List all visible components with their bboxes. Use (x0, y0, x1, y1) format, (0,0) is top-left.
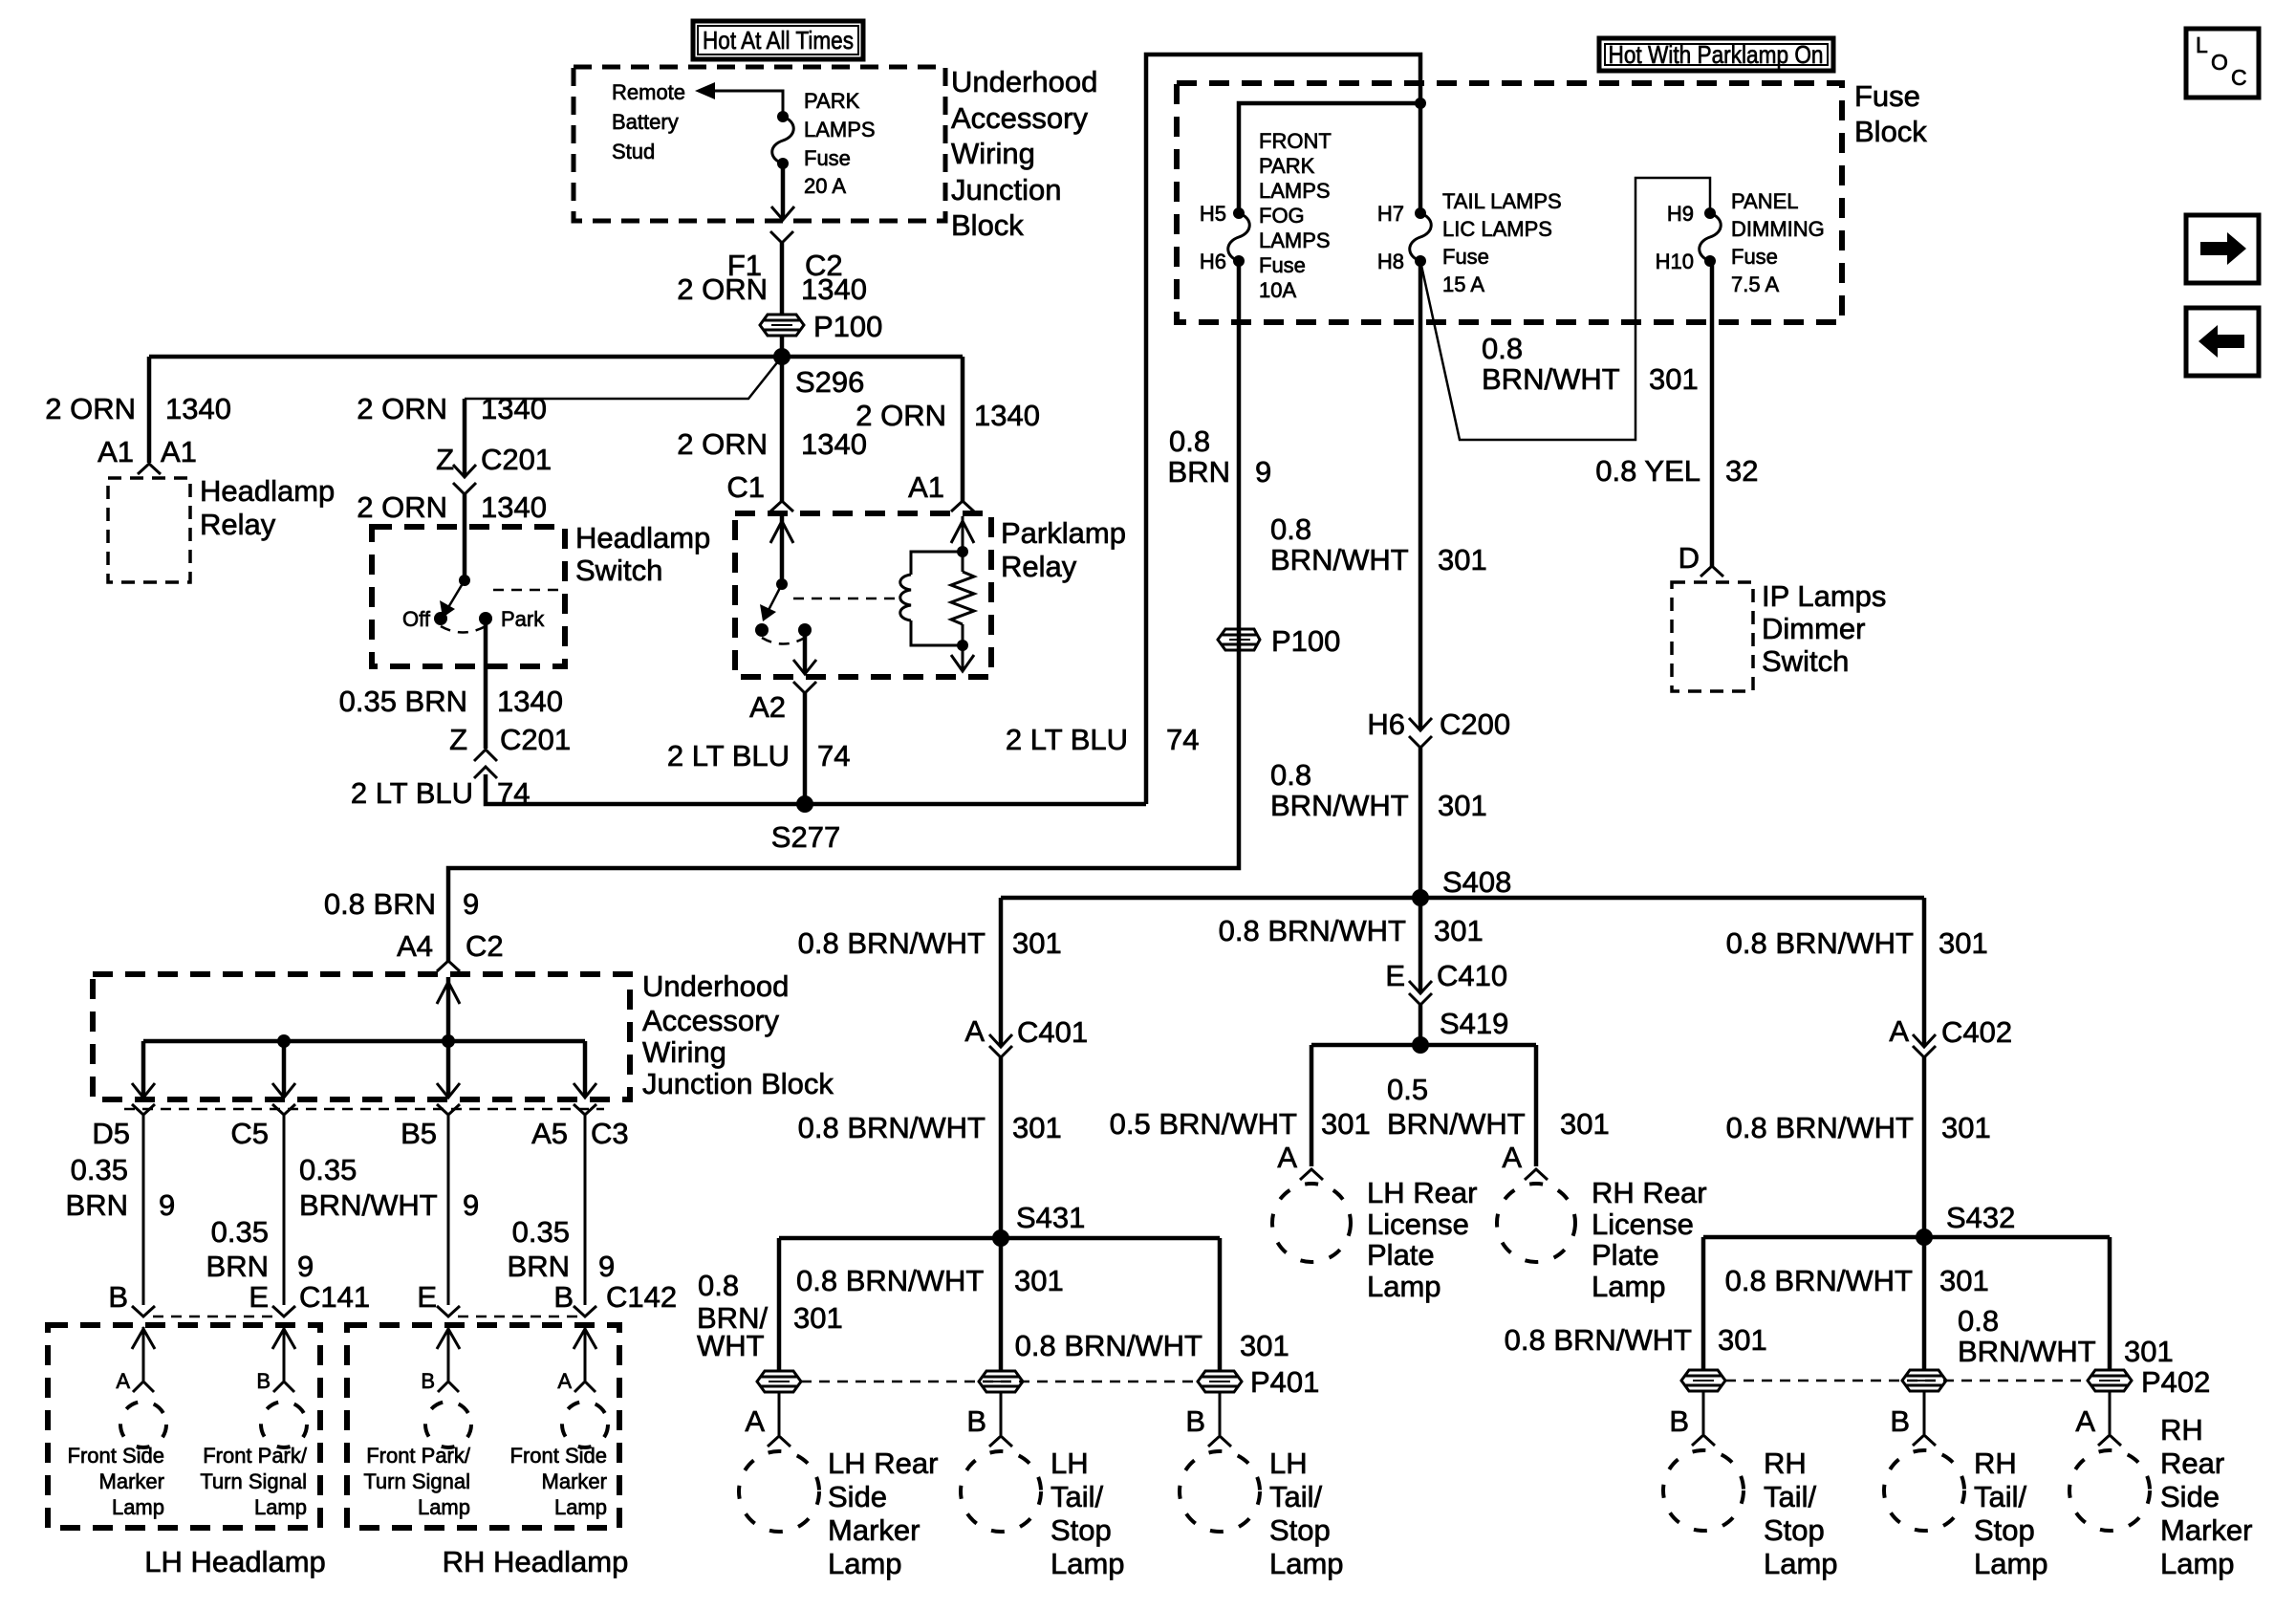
switch linkage dashed line (493, 589, 563, 592)
svg-text:A: A (2075, 1404, 2095, 1438)
grommet P402 (2088, 1370, 2132, 1391)
connector chevron at dimmer switch D (1700, 566, 1723, 577)
svg-text:0.8 BRN/WHT: 0.8 BRN/WHT (1505, 1323, 1692, 1357)
svg-text:Rear: Rear (2160, 1447, 2224, 1480)
svg-text:1340: 1340 (481, 392, 547, 425)
connector C201 (arrow + chevron, pointing down) (453, 465, 476, 494)
label: 0.8 BRN/WHT 301 (above S432) (1726, 1111, 1991, 1144)
svg-text:P402: P402 (2141, 1365, 2210, 1399)
svg-text:0.8: 0.8 (1482, 332, 1523, 365)
label: 0.5 BRN/WHT 301 (right license lamp) (1387, 1073, 1610, 1141)
wire: H8 jog over to H9 (panel dimming feed) (1420, 178, 1710, 440)
connector chevron RH license (1525, 1169, 1548, 1180)
wire: S432 left branch down (1701, 1237, 1706, 1370)
svg-text:20 A: 20 A (804, 174, 846, 198)
svg-text:0.8: 0.8 (698, 1269, 739, 1302)
svg-text:E: E (417, 1280, 437, 1314)
grommet P100 (760, 315, 804, 336)
headlamp switch pole and contacts (434, 575, 492, 633)
wire: S419 right branch down (1534, 1045, 1539, 1166)
label: RH Rear Side Marker Lamp (2160, 1413, 2252, 1580)
connector chevron at junction block A4/C2 (437, 961, 460, 971)
lamp: front side marker (LH) (120, 1402, 166, 1447)
svg-text:A1: A1 (97, 435, 134, 468)
connector C410 (arrow + chevron) (1409, 981, 1432, 1005)
svg-text:9: 9 (463, 887, 479, 921)
svg-text:Lamp: Lamp (112, 1495, 164, 1519)
svg-text:0.8 BRN/WHT: 0.8 BRN/WHT (1219, 914, 1406, 947)
svg-text:A: A (1277, 1141, 1297, 1174)
svg-text:0.8: 0.8 (1958, 1304, 1999, 1338)
svg-text:301: 301 (1941, 1111, 1991, 1144)
lamp: RH tail/stop (left) (1663, 1450, 1744, 1531)
svg-text:C142: C142 (606, 1280, 677, 1314)
svg-text:Hot With Parklamp On: Hot With Parklamp On (1609, 40, 1824, 69)
label: 0.8 YEL 32 (1595, 454, 1758, 488)
icon: right arrow box (2186, 215, 2259, 283)
svg-text:Lamp: Lamp (418, 1495, 470, 1519)
label: 2 ORN 1340 (C1 branch) (677, 427, 867, 461)
svg-text:1340: 1340 (801, 427, 867, 461)
svg-text:E: E (249, 1280, 269, 1314)
LH headlamp box (dashed) (48, 1325, 320, 1528)
svg-text:301: 301 (1438, 789, 1487, 822)
parklamp relay coil exit arrow (951, 655, 974, 671)
wire: H8 fuse output down to C200 (1419, 261, 1423, 729)
svg-text:0.8 BRN/WHT: 0.8 BRN/WHT (1725, 1264, 1913, 1297)
wire: S296 horizontal bus left and right (149, 355, 963, 359)
svg-text:Block: Block (1854, 115, 1927, 148)
svg-text:15 A: 15 A (1442, 272, 1484, 296)
svg-text:Dimmer: Dimmer (1762, 612, 1866, 645)
label: 2 ORN 1340 (above C201) (357, 392, 547, 425)
svg-text:Lamp: Lamp (1367, 1270, 1441, 1303)
connector face dashed line C142 (458, 1316, 578, 1318)
svg-text:1340: 1340 (497, 685, 563, 718)
svg-text:301: 301 (793, 1301, 843, 1335)
headlamp switch box (dashed) (372, 527, 565, 666)
wire: P402 to RH rear side marker (2109, 1391, 2112, 1434)
grommet (LH tail/stop center) (979, 1371, 1023, 1392)
connector chevron C142 E (437, 1306, 460, 1316)
svg-text:A4: A4 (397, 929, 433, 963)
svg-text:B: B (256, 1369, 271, 1393)
svg-text:A: A (964, 1014, 985, 1048)
svg-text:Side: Side (828, 1480, 887, 1513)
svg-text:301: 301 (1240, 1329, 1289, 1362)
splice S277 (796, 795, 813, 813)
svg-text:LH Rear: LH Rear (828, 1447, 938, 1480)
svg-text:301: 301 (1438, 543, 1487, 577)
wire: RH front park drop with entry arrow (437, 1327, 460, 1381)
label: 0.35 BRN 9 (C5) (206, 1215, 314, 1283)
svg-text:B: B (108, 1280, 128, 1314)
label: E C410 (1385, 959, 1507, 992)
label: A4 C2 (397, 929, 504, 963)
wire: bus drop D5 with exit arrow (132, 1041, 155, 1098)
svg-text:B: B (966, 1404, 986, 1438)
wire: right branch of S296 down to parklamp relay A1 (961, 357, 965, 501)
svg-text:DIMMING: DIMMING (1731, 217, 1825, 241)
wire: remote battery stud feed with left arrow (695, 82, 783, 117)
svg-text:0.8 BRN/WHT: 0.8 BRN/WHT (796, 1264, 984, 1297)
svg-text:0.8: 0.8 (1270, 512, 1311, 546)
svg-text:Front Park/: Front Park/ (366, 1444, 471, 1468)
label: LH Tail/ Stop Lamp (center) (1051, 1447, 1125, 1580)
connector chevron LH rear side marker (768, 1436, 791, 1447)
svg-text:LH: LH (1269, 1447, 1308, 1480)
svg-text:A1: A1 (908, 470, 944, 504)
svg-text:Tail/: Tail/ (1974, 1480, 2027, 1513)
svg-text:Headlamp: Headlamp (200, 474, 335, 508)
svg-text:Block: Block (951, 208, 1024, 242)
svg-text:Wiring: Wiring (951, 137, 1035, 170)
splice S408 (1412, 889, 1429, 906)
headlamp relay box (dashed) (108, 478, 190, 582)
svg-text:H10: H10 (1656, 250, 1694, 273)
connector chevron C5 (272, 1104, 295, 1115)
label: Underhood Accessory Wiring Junction Block (lower) (642, 969, 834, 1100)
svg-text:A: A (557, 1369, 572, 1393)
wire: H10 down to IP lamps dimmer switch (1710, 261, 1715, 566)
svg-text:LH Rear: LH Rear (1367, 1176, 1477, 1209)
label: 2 LT BLU 74 (A2 wire) (667, 739, 851, 772)
svg-text:Tail/: Tail/ (1764, 1480, 1817, 1513)
wire: left branch down to C401 (999, 898, 1004, 1046)
grommet (LH rear side marker) (757, 1371, 801, 1392)
svg-text:RH: RH (1974, 1447, 2017, 1480)
svg-text:2 ORN: 2 ORN (357, 490, 447, 524)
svg-text:BRN/WHT: BRN/WHT (1270, 789, 1409, 822)
svg-text:32: 32 (1725, 454, 1758, 488)
parklamp relay switch pole (755, 578, 812, 644)
wire: grommet to LH rear side marker lamp (778, 1392, 781, 1435)
grommet (RH tail/stop center) (1902, 1370, 1946, 1391)
wire: C402 to S432 (1922, 1057, 1927, 1237)
label: 0.8 BRN 9 (upper) (1168, 424, 1272, 489)
svg-text:Stop: Stop (1974, 1513, 2035, 1547)
svg-text:301: 301 (1434, 914, 1484, 947)
svg-text:Underhood: Underhood (642, 969, 789, 1003)
connector chevron at headlamp relay A1 (138, 464, 161, 474)
svg-text:H6: H6 (1200, 250, 1226, 273)
label: RH Tail/ Stop Lamp (center) (1974, 1447, 2048, 1580)
label: Parklamp Relay (1001, 516, 1126, 583)
svg-text:Lamp: Lamp (1592, 1270, 1666, 1303)
svg-text:S408: S408 (1442, 865, 1511, 899)
svg-text:301: 301 (1649, 362, 1699, 396)
wire: S296 diagonal to headlamp switch branch (465, 357, 782, 399)
svg-text:LH: LH (1051, 1447, 1089, 1480)
svg-text:1340: 1340 (974, 399, 1040, 432)
grommet (RH tail/stop left) (1681, 1370, 1725, 1391)
label: Front Park/Turn Signal Lamp (RH) (363, 1444, 471, 1519)
wire: RH front side marker drop with entry arrow (574, 1327, 596, 1381)
label: A C401 (964, 1014, 1088, 1049)
svg-text:C200: C200 (1440, 707, 1510, 741)
svg-text:S419: S419 (1440, 1007, 1508, 1040)
svg-text:P100: P100 (1271, 624, 1340, 658)
label: Z C201 (lower) (449, 723, 571, 756)
svg-text:Lamp: Lamp (254, 1495, 307, 1519)
svg-text:301: 301 (1012, 1111, 1062, 1144)
svg-text:Lamp: Lamp (1051, 1547, 1125, 1580)
lamp: LH tail/stop (right) (1180, 1451, 1260, 1532)
svg-text:Marker: Marker (828, 1513, 920, 1547)
lamp: front park/turn signal (LH) (261, 1402, 307, 1447)
svg-text:7.5 A: 7.5 A (1731, 272, 1779, 296)
wire: Park contact down and out of switch box (484, 619, 488, 749)
label: 0.8 BRN/WHT 301 (panel dimming feed) (1482, 332, 1699, 396)
svg-text:D5: D5 (92, 1117, 130, 1150)
connector chevron at parklamp relay C1 (770, 501, 793, 511)
connector chevron C142 B (574, 1306, 596, 1316)
svg-text:Fuse: Fuse (804, 146, 851, 170)
svg-text:Parklamp: Parklamp (1001, 516, 1126, 550)
svg-text:RH Rear: RH Rear (1592, 1176, 1707, 1209)
RH headlamp box (dashed) (347, 1325, 619, 1528)
svg-text:C201: C201 (500, 723, 571, 756)
svg-text:BRN/WHT: BRN/WHT (1387, 1107, 1526, 1141)
svg-text:Turn Signal: Turn Signal (363, 1469, 470, 1493)
label: Headlamp Switch (575, 521, 710, 587)
svg-text:Relay: Relay (200, 508, 276, 541)
label: 2 ORN 1340 (677, 272, 867, 306)
svg-text:Lamp: Lamp (2160, 1547, 2235, 1580)
fuse TAIL LAMPS LIC LAMPS 15A (H7-H8) (1410, 207, 1432, 267)
svg-text:0.8 BRN/WHT: 0.8 BRN/WHT (798, 1111, 986, 1144)
label: PANEL DIMMING Fuse 7.5 A (1731, 189, 1825, 296)
label: 0.8 BRN/WHT 301 (above S431) (798, 1111, 1062, 1144)
connector chevron B5 (437, 1104, 460, 1115)
svg-text:Fuse: Fuse (1731, 245, 1778, 269)
grommet P401 row dashed link (801, 1381, 1198, 1383)
svg-text:C201: C201 (481, 443, 552, 476)
svg-text:BRN/WHT: BRN/WHT (1270, 543, 1409, 577)
svg-text:Fuse: Fuse (1259, 253, 1306, 277)
svg-text:Fuse: Fuse (1442, 245, 1489, 269)
label: FRONT PARK LAMPS FOG LAMPS Fuse 10A (1259, 129, 1332, 302)
connector chevron LH tail/stop right (1208, 1436, 1231, 1447)
wire: S408 center down to C410 (1419, 898, 1423, 993)
grommet P100 (second) (1218, 629, 1260, 650)
svg-text:FOG: FOG (1259, 204, 1305, 228)
svg-text:Relay: Relay (1001, 550, 1077, 583)
svg-text:RH: RH (2160, 1413, 2203, 1447)
svg-text:LAMPS: LAMPS (1259, 228, 1331, 252)
svg-text:9: 9 (463, 1188, 479, 1222)
connector chevron RH tail/stop center (1913, 1435, 1936, 1446)
label: E C141 (249, 1280, 370, 1314)
wire: S419 left branch down (1310, 1045, 1314, 1166)
svg-text:0.5 BRN/WHT: 0.5 BRN/WHT (1110, 1107, 1297, 1141)
label: LH Rear License Plate Lamp (1367, 1176, 1477, 1303)
svg-text:1340: 1340 (165, 392, 231, 425)
svg-text:TAIL LAMPS: TAIL LAMPS (1442, 189, 1562, 213)
svg-text:PARK: PARK (1259, 154, 1315, 178)
svg-text:E: E (1385, 959, 1405, 992)
label: Underhood Accessory Wiring Junction Block (951, 65, 1097, 242)
label: 0.8 BRN/WHT 301 (above C401) (798, 926, 1062, 960)
wire: S432 right branch down (2108, 1237, 2112, 1370)
label: 2 LT BLU 74 (right riser) (1006, 723, 1200, 756)
parklamp relay A1 entry arrow (951, 521, 974, 543)
wire: grommet to RH tail/stop (center) (1923, 1391, 1926, 1434)
lamp: LH tail/stop (center) (961, 1451, 1041, 1532)
label: 0.8 BRN/WHT 301 (center S431) (796, 1264, 1064, 1297)
header box "Hot At All Times" (693, 21, 863, 59)
connector C402 (arrow + chevron) (1913, 1034, 1936, 1057)
IP lamps dimmer switch box (dashed) (1672, 582, 1753, 691)
fuse FRONT PARK LAMPS FOG LAMPS 10A (H5-H6) (1228, 207, 1250, 267)
Underhood Accessory Wiring Junction Block (lower) dashed box (93, 974, 630, 1099)
svg-text:2 ORN: 2 ORN (677, 272, 768, 306)
svg-text:S296: S296 (795, 365, 864, 399)
svg-text:B: B (421, 1369, 435, 1393)
lamp: RH rear side marker (2069, 1450, 2150, 1531)
svg-text:0.35: 0.35 (211, 1215, 269, 1249)
label: RH Rear License Plate Lamp (1592, 1176, 1707, 1303)
wire: D5 column down to C141 B (142, 1115, 145, 1305)
svg-text:0.35: 0.35 (512, 1215, 570, 1249)
label: 0.8 BRN/WHT 301 (left S432 branch) (1505, 1323, 1767, 1357)
svg-text:1340: 1340 (801, 272, 867, 306)
label: Front Side Marker Lamp (RH) (510, 1444, 608, 1519)
svg-text:LIC LAMPS: LIC LAMPS (1442, 217, 1552, 241)
connector chevron A5 (574, 1104, 596, 1115)
label: 0.8 BRN/WHT 301 (above C200) (1270, 512, 1487, 577)
connector chevron C141 B (132, 1306, 155, 1316)
svg-text:2 ORN: 2 ORN (45, 392, 136, 425)
svg-text:S431: S431 (1016, 1201, 1085, 1234)
wire: middle branch vertical to C201 (463, 399, 467, 475)
connector chevron lamp LH side marker (133, 1382, 154, 1392)
wire: P401 to LH tail/stop lamp (right) (1219, 1392, 1222, 1435)
svg-text:Hot At All Times: Hot At All Times (703, 26, 854, 54)
svg-text:C401: C401 (1017, 1015, 1088, 1049)
label: 0.8 BRN/WHT 301 (center below S432) (1725, 1264, 1989, 1297)
wire: left branch down to headlamp relay A1 (147, 357, 152, 463)
svg-text:A: A (1502, 1141, 1522, 1174)
svg-text:0.35 BRN: 0.35 BRN (339, 685, 467, 718)
svg-text:Switch: Switch (1762, 644, 1849, 678)
svg-text:Plate: Plate (1592, 1238, 1659, 1272)
wire: C410 to S419 (1419, 1005, 1423, 1045)
svg-text:PANEL: PANEL (1731, 189, 1799, 213)
label: 0.35 BRN 9 (D5) (66, 1153, 176, 1222)
svg-text:LAMPS: LAMPS (804, 118, 876, 141)
wire: down from C201 and right along S277 bus (486, 774, 1146, 804)
svg-text:Lamp: Lamp (1974, 1547, 2048, 1580)
svg-text:301: 301 (1321, 1107, 1371, 1141)
label: 0.8 BRN/WHT 301 (right S432 branch) (1958, 1304, 2174, 1368)
header box "Hot With Parklamp On" (1599, 38, 1833, 71)
svg-text:A: A (745, 1404, 765, 1438)
label: 2 ORN 1340 (left branch) (45, 392, 231, 425)
svg-text:H8: H8 (1377, 250, 1404, 273)
splice S432 (1916, 1229, 1933, 1246)
connector face dashed line (D5..A5) (124, 1108, 604, 1111)
label: 0.8 BRN/WHT 301 (right S431 branch) (1015, 1329, 1289, 1362)
connector chevron LH license (1300, 1169, 1323, 1180)
svg-text:RH Headlamp: RH Headlamp (443, 1545, 629, 1578)
svg-text:Off: Off (402, 607, 431, 631)
svg-text:LAMPS: LAMPS (1259, 179, 1331, 203)
connector face dashed line C141 (153, 1316, 277, 1318)
relay resistor (951, 516, 974, 669)
label: 0.35 BRN 9 (A5) (508, 1215, 616, 1283)
node: fuse feed junction (1415, 98, 1426, 109)
icon: LOC box (2186, 29, 2259, 98)
label: Front Park/Turn Signal Lamp (LH) (200, 1444, 308, 1519)
label: PARK LAMPS Fuse 20 A (804, 89, 876, 198)
lamp: LH rear side marker (739, 1451, 819, 1532)
svg-text:H5: H5 (1200, 202, 1226, 226)
grommet P402 row dashed link (1725, 1380, 2088, 1382)
svg-text:301: 301 (1718, 1323, 1767, 1357)
svg-text:B5: B5 (401, 1117, 437, 1150)
svg-text:S432: S432 (1946, 1201, 2015, 1234)
svg-text:301: 301 (1012, 926, 1062, 960)
svg-text:9: 9 (159, 1188, 175, 1222)
label: TAIL LAMPS LIC LAMPS Fuse 15 A (1442, 189, 1562, 296)
wire: C401 to S431 (999, 1057, 1004, 1238)
connector chevron LH tail/stop center (989, 1436, 1012, 1447)
svg-text:IP Lamps: IP Lamps (1762, 579, 1886, 613)
label: 0.8 BRN/WHT 301 (above C402) (1726, 926, 1988, 960)
grommet P401 (1198, 1371, 1242, 1392)
svg-text:2 LT BLU: 2 LT BLU (351, 776, 473, 810)
wire: S431 right branch down (1218, 1238, 1223, 1371)
svg-text:Front Park/: Front Park/ (203, 1444, 308, 1468)
svg-text:WHT: WHT (697, 1329, 765, 1362)
svg-text:H6: H6 (1367, 707, 1405, 741)
svg-text:301: 301 (1014, 1264, 1064, 1297)
svg-text:Lamp: Lamp (554, 1495, 607, 1519)
svg-text:A: A (1889, 1014, 1909, 1048)
fuse PARK LAMPS 20A (772, 111, 794, 169)
wire: grommet to LH tail/stop lamp (center) (1000, 1392, 1003, 1435)
svg-text:301: 301 (1939, 1264, 1989, 1297)
svg-text:2 ORN: 2 ORN (357, 392, 447, 425)
svg-text:P401: P401 (1250, 1365, 1319, 1399)
svg-text:Front Side: Front Side (510, 1444, 608, 1468)
svg-text:Front Side: Front Side (68, 1444, 165, 1468)
svg-text:Stud: Stud (612, 140, 655, 163)
connector chevron RH rear side marker (2098, 1435, 2121, 1446)
svg-text:BRN: BRN (1168, 455, 1230, 489)
label: A1 A1 (97, 435, 197, 468)
svg-text:Marker: Marker (542, 1469, 607, 1493)
junction block A4 entry arrow (437, 977, 460, 1041)
svg-text:B: B (1890, 1404, 1910, 1438)
connector F1 / C2 chevron (770, 231, 793, 243)
label: 2 ORN 1340 (below C201) (357, 490, 547, 524)
connector chevron C141 E (272, 1306, 295, 1316)
svg-text:0.8 BRN/WHT: 0.8 BRN/WHT (1015, 1329, 1202, 1362)
svg-text:2 ORN: 2 ORN (677, 427, 768, 461)
connector chevron at parklamp relay A1 (951, 501, 974, 511)
wire: S419 horizontal bus (1311, 1043, 1536, 1048)
wire: P100 to S296 (780, 336, 785, 357)
svg-text:301: 301 (2124, 1335, 2174, 1368)
wire: C201 to headlamp switch (463, 494, 467, 580)
connector chevron lamp RH front park (438, 1382, 459, 1392)
relay coil (900, 552, 963, 645)
lamp: LH rear license plate (1272, 1184, 1351, 1262)
wire: junction block internal bus (143, 1039, 585, 1044)
svg-text:2 LT BLU: 2 LT BLU (1006, 723, 1128, 756)
